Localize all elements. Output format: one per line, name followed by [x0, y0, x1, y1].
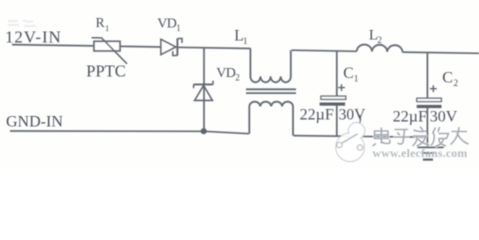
wire top rail choke to L2 [292, 50, 357, 51]
svg-text:1: 1 [243, 37, 248, 47]
svg-text:www.elecfans.com: www.elecfans.com [373, 146, 468, 160]
faint ghost mark top-left [8, 20, 36, 26]
watermark logo [336, 123, 365, 162]
svg-text:C: C [442, 70, 453, 87]
inductor L2 [357, 45, 403, 53]
wire R1 to VD1 [120, 45, 161, 48]
svg-text:1: 1 [176, 23, 181, 33]
svg-text:C: C [343, 65, 353, 82]
inductor L1 common-mode choke top winding [250, 48, 290, 82]
svg-text:30V: 30V [430, 109, 458, 126]
svg-text:30V: 30V [339, 106, 367, 123]
svg-text:VD: VD [216, 66, 236, 81]
svg-text:22µF: 22µF [393, 109, 427, 126]
ground [417, 147, 444, 159]
svg-text:2: 2 [377, 36, 382, 46]
svg-text:22µF: 22µF [300, 106, 334, 123]
svg-text:2: 2 [235, 73, 240, 83]
resistor R1 (PPTC) [92, 38, 128, 64]
wire top rail left [12, 45, 94, 46]
wire top rail L2 to right edge [403, 52, 479, 53]
svg-text:1: 1 [105, 23, 109, 33]
diode VD1 [161, 38, 182, 55]
svg-text:PPTC: PPTC [86, 62, 125, 81]
inductor L1 bottom winding [249, 102, 293, 136]
diode VD2 [194, 47, 213, 131]
svg-text:GND-IN: GND-IN [6, 114, 63, 131]
wire bottom rail left [10, 131, 249, 134]
junction dot (VD2 anode to GND rail) [201, 128, 207, 134]
capacitor C2 [417, 53, 442, 148]
svg-text:12V-IN: 12V-IN [5, 27, 62, 46]
svg-text:VD: VD [157, 17, 177, 32]
wire bottom rail right [294, 136, 429, 138]
svg-text:2: 2 [453, 79, 458, 89]
capacitor C1 [320, 51, 346, 136]
choke core lines [246, 88, 296, 90]
wire VD1 to choke [178, 47, 250, 48]
watermark hanzi (approximated glyph strokes) [373, 127, 469, 147]
svg-text:1: 1 [354, 74, 359, 84]
svg-text:R: R [96, 15, 105, 30]
